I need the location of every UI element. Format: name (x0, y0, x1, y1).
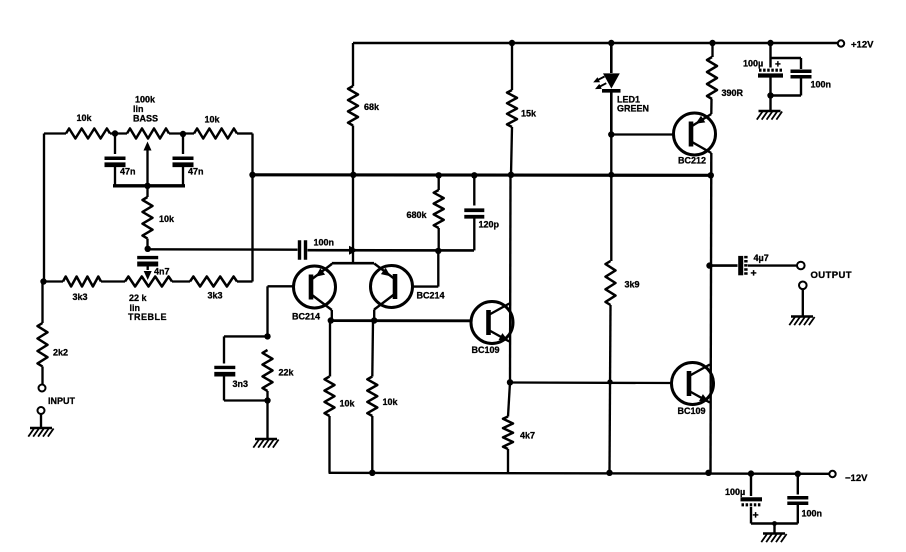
wire Q2 collector drop (373, 310, 375, 321)
svg-text:lin: lin (133, 104, 144, 114)
capacitor 100u bottom electrolytic (725, 487, 762, 524)
terminal +12V (838, 40, 874, 51)
capacitor 100n bottom (787, 474, 822, 524)
capacitor 4n7 (137, 258, 169, 277)
capacitor 100n top (791, 71, 832, 95)
svg-text:BC212: BC212 (678, 156, 706, 166)
svg-text:10k: 10k (76, 113, 92, 123)
junction Q5 collector / midbus (708, 172, 714, 178)
transistor Q2 BC214 (371, 264, 445, 310)
resistor 10k emitter-1 (325, 321, 356, 473)
resistor 10k top-right (194, 115, 237, 139)
wire 100u bot column (750, 474, 752, 496)
svg-text:3k3: 3k3 (207, 291, 222, 301)
junction 100n bot / rail (795, 471, 801, 477)
svg-text:OUTPUT: OUTPUT (811, 270, 852, 281)
node A (bass left) (112, 130, 118, 136)
capacitor 47n right (173, 134, 204, 186)
junction 22k top (264, 333, 270, 339)
junction bass wiper node (144, 183, 150, 189)
ground 22k/3n3 (253, 439, 278, 448)
junction 22k bottom (264, 397, 270, 403)
wire BC214 Q1 base lead (268, 286, 294, 336)
wire -12V bottom rail (329, 473, 829, 474)
terminal output ground pin (799, 282, 807, 317)
node C (10k/4n7) (145, 246, 151, 252)
resistor 10k emitter-2 (367, 321, 398, 473)
junction 120p top (471, 172, 477, 178)
wire LED anode (610, 43, 613, 73)
terminal input ground pin (38, 407, 45, 427)
wire top-left row (44, 132, 253, 134)
svg-text:−12V: −12V (845, 473, 868, 484)
capacitor 47n left (105, 134, 136, 186)
capacitor 120p (464, 175, 499, 250)
svg-text:680k: 680k (407, 210, 428, 220)
svg-text:BC109: BC109 (472, 345, 500, 355)
junction 390R / +12V (709, 40, 715, 46)
wire Q2 base lead (413, 251, 439, 287)
junction 10k-2 / rail (369, 470, 375, 476)
svg-text:TREBLE: TREBLE (128, 312, 167, 322)
junction LED / +12V (608, 40, 614, 46)
wire 3n3 bottom (224, 399, 268, 401)
resistor 4k7 (503, 382, 535, 473)
wire node C to 100n (148, 248, 298, 251)
capacitor 3n3 (214, 367, 248, 400)
resistor 68k (348, 86, 380, 126)
ground input (28, 428, 53, 437)
transistor Q4 BC109 (672, 363, 714, 417)
potentiometer 22k lin TREBLE (125, 277, 172, 323)
junction 100u bot / rail (748, 470, 754, 476)
svg-text:BASS: BASS (133, 114, 158, 124)
resistor 680k (407, 175, 444, 251)
junction psu top gnd (767, 92, 773, 98)
junction base bus / 3k9 column (607, 379, 612, 384)
resistor 2k2 (38, 282, 69, 385)
wire to psu bot ground (773, 524, 775, 534)
node B (bass right) (180, 131, 186, 137)
svg-text:INPUT: INPUT (48, 396, 76, 406)
junction 15k / +12V (509, 40, 515, 46)
resistor 3k3 left (63, 277, 101, 303)
junction Q3 emitter / Q4 base (507, 379, 513, 385)
junction base drop (435, 248, 441, 254)
terminal INPUT (39, 385, 76, 407)
svg-text:4n7: 4n7 (154, 267, 170, 277)
junction 3k9 / rail (606, 470, 612, 476)
resistor 10k middle (143, 186, 176, 246)
svg-text:+: + (751, 268, 757, 280)
svg-text:100µ: 100µ (743, 59, 763, 69)
terminal OUTPUT (797, 262, 852, 281)
junction Q4 emitter / rail (705, 470, 711, 476)
node D (feedback tap) (249, 172, 255, 178)
wire 100n top branch (771, 58, 802, 69)
wire 3n3 top (224, 336, 268, 363)
svg-text:100k: 100k (135, 95, 156, 105)
svg-text:4µ7: 4µ7 (754, 253, 769, 263)
wire to ground (266, 401, 268, 439)
wire 100u top column (769, 43, 771, 68)
svg-text:68k: 68k (364, 102, 380, 112)
svg-text:+: + (775, 60, 781, 71)
ground output (789, 317, 814, 326)
svg-text:120p: 120p (479, 220, 500, 230)
wire emitter rail (332, 262, 374, 265)
svg-text:100µ: 100µ (725, 487, 745, 497)
svg-text:3k9: 3k9 (625, 280, 640, 290)
svg-text:22 k: 22 k (129, 293, 148, 303)
wire Q5 collector column (709, 153, 712, 473)
svg-text:10k: 10k (383, 397, 399, 407)
svg-text:+12V: +12V (851, 40, 874, 51)
wire 68k to tail (352, 126, 354, 175)
svg-text:4k7: 4k7 (520, 431, 535, 441)
capacitor 4u7 electrolytic (741, 253, 797, 280)
resistor 3k3 right (190, 277, 237, 301)
junction 680k top (436, 172, 442, 178)
resistor 10k top-left (66, 113, 110, 139)
capacitor 100u top electrolytic (743, 59, 783, 96)
transistor Q5 BC212 (674, 113, 716, 166)
wire right vertical x=252 (251, 134, 253, 282)
wire +12V top rail (353, 42, 838, 45)
wire Q1 emitter corner (331, 263, 333, 264)
junction Q1 collector (328, 317, 334, 323)
svg-text:22k: 22k (279, 368, 295, 378)
wire to 4u7 (710, 264, 738, 267)
svg-text:15k: 15k (521, 109, 537, 119)
wire mid bus y=175 (253, 173, 712, 177)
svg-text:BC109: BC109 (678, 406, 706, 416)
resistor 3k9 (606, 261, 640, 473)
wire LED column to 3k9 (610, 135, 612, 262)
wire collector bus to Q3 base (331, 319, 471, 322)
wire 68k top corner (352, 43, 354, 86)
junction 15k/midbus (508, 172, 514, 178)
wire 100n to feedback node (308, 249, 475, 252)
svg-text:+: + (753, 510, 759, 522)
wire left vertical (43, 134, 45, 282)
junction Q2 collector (371, 317, 377, 323)
transistor Q3 BC109 (471, 302, 513, 356)
wire caps bottom bus (113, 184, 185, 187)
ground psu bottom (761, 534, 786, 543)
svg-text:100n: 100n (811, 80, 832, 90)
terminal -12V (829, 471, 868, 484)
wire Q1 collector drop (331, 310, 333, 321)
junction input/3k3 corner (40, 278, 46, 284)
svg-text:2k2: 2k2 (53, 348, 68, 358)
wire psu bot bus (751, 522, 798, 524)
wire to psu top ground (769, 96, 771, 111)
svg-text:BC214: BC214 (292, 312, 320, 322)
svg-text:100n: 100n (314, 238, 335, 248)
svg-text:3n3: 3n3 (233, 379, 249, 389)
svg-text:3k3: 3k3 (72, 292, 87, 302)
wire Q4 base bus (510, 381, 672, 384)
svg-text:GREEN: GREEN (617, 104, 649, 114)
junction LED column / midbus (608, 172, 614, 178)
svg-text:BC214: BC214 (417, 291, 445, 301)
junction 100u top / rail (767, 40, 773, 46)
tail arrow junction (349, 246, 358, 255)
potentiometer 100k lin BASS (127, 95, 169, 139)
svg-text:100n: 100n (802, 509, 823, 519)
svg-text:10k: 10k (204, 115, 220, 125)
wiper BASS arrow (144, 142, 152, 186)
svg-text:390R: 390R (722, 88, 744, 98)
resistor 390R (707, 43, 744, 114)
junction output tap (706, 262, 712, 268)
junction LED cathode / Q5 base (608, 131, 614, 137)
wiper TREBLE arrow (144, 271, 152, 280)
svg-text:47n: 47n (120, 167, 136, 177)
wire Q3 collector column (509, 175, 512, 382)
LED1 GREEN diode (593, 73, 649, 134)
capacitor 100n coupling (300, 238, 335, 260)
wire bottom-left row (44, 280, 253, 282)
junction 68k/midbus (350, 172, 356, 178)
resistor 15k (507, 43, 537, 175)
svg-text:47n: 47n (188, 167, 204, 177)
svg-text:10k: 10k (340, 399, 356, 409)
wire psu top bottom bus (771, 94, 802, 96)
wire tail down (352, 175, 354, 263)
svg-text:10k: 10k (159, 214, 175, 224)
transistor Q1 BC214 (292, 264, 336, 322)
ground psu top (757, 111, 782, 120)
wire Q5 base lead (611, 133, 673, 135)
junction psu bot gnd (772, 521, 777, 526)
resistor 22k (263, 350, 295, 401)
